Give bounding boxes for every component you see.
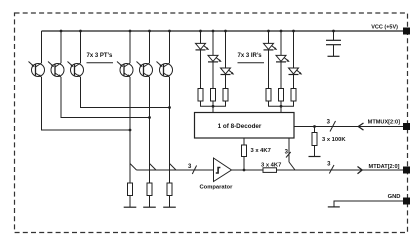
resistor R 3x4K7 (series) [263, 168, 277, 173]
LED D3 [221, 31, 235, 89]
wire column A vertical [129, 77, 131, 183]
resistor R-D5 [279, 89, 284, 102]
LED D4 [264, 31, 278, 89]
svg-text:3 x 100K: 3 x 100K [322, 137, 346, 143]
svg-text:MTMUX[2:0]: MTMUX[2:0] [368, 120, 400, 126]
resistor R-D2 [211, 89, 216, 102]
resistor R 3x100K [314, 127, 316, 133]
bus merge branch C [170, 164, 177, 171]
resistor R-D4 [266, 89, 271, 102]
junction Q5 collector / rail [148, 30, 151, 33]
ground (column A) [124, 206, 137, 208]
phototransistor Q1 [29, 31, 45, 77]
bus width slash 3 (select) [286, 152, 291, 158]
wire select diagonal to MTDAT [289, 162, 295, 170]
wire GND [334, 201, 403, 207]
junction Q6 collector / rail [168, 30, 171, 33]
wire comparator output / MTDAT [232, 169, 404, 171]
svg-text:3 x 4K7: 3 x 4K7 [251, 148, 271, 154]
wire Q1 emitter to column A [42, 77, 131, 130]
junction pullup node [313, 125, 316, 128]
resistor R-A pulldown [128, 183, 133, 196]
wire LED group 1 join [201, 101, 226, 106]
phototransistor Q2 [48, 31, 64, 77]
LED D5 [276, 31, 290, 89]
resistor R-D3 [223, 89, 228, 102]
phototransistor Q6 [157, 31, 173, 77]
comparator U2 [214, 158, 232, 182]
ground (pullup resistor) [309, 156, 321, 158]
bus merge branch B [150, 164, 157, 171]
junction LED group 1 [212, 105, 215, 108]
junction Q4 collector / rail [129, 30, 132, 33]
capacitor C1 [326, 40, 341, 44]
LED D1 [196, 31, 210, 89]
svg-text:1 of 8-Decoder: 1 of 8-Decoder [218, 123, 262, 130]
junction column C [168, 106, 171, 109]
ground (column C) [163, 206, 176, 208]
phototransistor Q4 [117, 31, 133, 77]
svg-text:MTDAT[2:0]: MTDAT[2:0] [369, 164, 400, 170]
wire Q2 emitter to column B [61, 77, 150, 118]
junction LED D5 / rail [280, 30, 283, 33]
svg-text:Comparator: Comparator [200, 184, 234, 190]
arrow MTDAT (points right) [358, 167, 363, 174]
svg-text:VCC (+5V): VCC (+5V) [371, 25, 398, 31]
ground (capacitor) [328, 55, 340, 57]
resistor R 3x4K7 (vertical) [243, 138, 245, 145]
junction column A [129, 129, 132, 132]
wire sensor bus to comparator [137, 169, 214, 171]
junction cap-rail [332, 30, 335, 33]
decoder U1 [195, 113, 295, 139]
bus merge branch A [130, 164, 137, 171]
resistor R-B pulldown [147, 183, 152, 196]
wire decoder select stub [288, 138, 290, 162]
svg-text:3 x 4K7: 3 x 4K7 [261, 162, 281, 168]
junction column B [148, 116, 151, 119]
junction LED D2 / rail [212, 30, 215, 33]
phototransistor Q5 [137, 31, 153, 77]
wire LED group 2 join [269, 101, 294, 106]
resistor R-C pulldown [167, 183, 172, 196]
junction LED D6 / rail [292, 30, 295, 33]
wire VCC rail [42, 30, 404, 32]
wire column B vertical [149, 77, 151, 183]
wire decoder to MTMUX [294, 126, 403, 128]
junction LED group 2 [280, 105, 283, 108]
svg-text:GND: GND [388, 194, 401, 200]
node MTMUX terminal [403, 123, 410, 130]
capacitor C1 lead bottom [333, 45, 335, 56]
junction Q3 collector / rail [79, 30, 82, 33]
junction Q2 collector / rail [60, 30, 63, 33]
junction LED D1 / rail [199, 30, 202, 33]
ground (column B) [143, 206, 156, 208]
capacitor C1 lead top [333, 31, 335, 40]
bus width slash 3 (comparator input) [192, 166, 196, 175]
node VCC terminal [403, 28, 410, 35]
ground (GND net) [328, 206, 340, 208]
LED D6 [289, 31, 303, 89]
junction comparator output [243, 169, 246, 172]
wire column C vertical [169, 77, 171, 183]
bus width slash 3 (MTMUX) [330, 121, 336, 132]
svg-text:7x 3 IR’s: 7x 3 IR’s [238, 53, 263, 59]
resistor R-D1 [198, 89, 203, 102]
svg-text:7x 3 PT’s: 7x 3 PT’s [87, 53, 113, 59]
junction LED D4 / rail [267, 30, 270, 33]
node MTDAT terminal [403, 167, 410, 174]
arrow MTMUX (points left) [358, 123, 363, 130]
resistor R-D6 [291, 89, 296, 102]
bus width slash 3 (MTDAT) [329, 165, 334, 174]
junction LED D3 / rail [224, 30, 227, 33]
LED D2 [208, 31, 222, 89]
phototransistor Q3 [68, 31, 84, 77]
node GND terminal [403, 198, 410, 205]
wire Q3 emitter to column C [81, 77, 170, 108]
